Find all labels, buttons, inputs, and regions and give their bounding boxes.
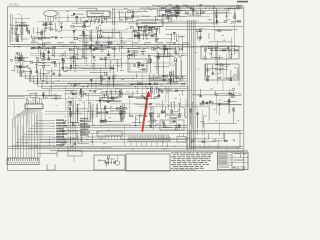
ground loop under J1 [47, 165, 55, 171]
centre-low cluster [63, 100, 93, 126]
wire bus B [8, 46, 243, 48]
connector J2 pin circles [129, 135, 170, 140]
wire bus L [60, 133, 243, 135]
cluster left of U1 [66, 11, 85, 24]
parts on stacked rails [68, 75, 125, 87]
cluster right of relay [148, 53, 185, 85]
wire y18.5 left [14, 18, 30, 20]
wire bus K [57, 149, 248, 151]
verticals x213-217 [214, 8, 217, 25]
input filter cluster top-left [11, 23, 28, 32]
wires in right-low box [192, 133, 235, 143]
sparse centre parts [126, 48, 146, 58]
rail y16 top right [155, 15, 210, 17]
parts in auxiliary box [98, 156, 116, 167]
resistor R2 [21, 28, 23, 33]
right border mid cluster [192, 88, 242, 98]
J2 ticks to rail [131, 142, 167, 147]
wires above U5 [8, 94, 37, 99]
IF amplifier row [62, 44, 123, 60]
cluster right mid top [166, 33, 185, 44]
parts in U3 box [204, 47, 239, 60]
parts in B2 [163, 121, 181, 131]
small connector right of J2 [177, 133, 186, 142]
wire bus A [10, 43, 190, 45]
auxiliary circuit box bottom middle [94, 155, 125, 170]
oscillator cluster [31, 43, 61, 61]
wire y95 left [8, 94, 62, 96]
cluster right-centre [161, 101, 186, 119]
top-right rail 1 [152, 5, 243, 7]
wire bus C2 [30, 53, 187, 55]
dense centre cluster [95, 100, 127, 124]
wires left column [13, 20, 30, 42]
notes text block [171, 152, 213, 170]
right-low box outline [190, 131, 240, 148]
sheet number smear top-right [237, 1, 248, 3]
U5 pin stubs up [27, 97, 42, 104]
right border low cluster [190, 99, 242, 128]
J1 pin number marks [9, 162, 37, 163]
transistor Q20 in auxiliary box [115, 155, 119, 165]
DIN socket oval near antenna [44, 11, 58, 17]
mid-right cluster [151, 44, 182, 61]
wire bundle from U5 to edge connector J1 [13, 109, 43, 158]
audio output cluster [61, 53, 124, 76]
wire bus F [62, 124, 187, 126]
rail right mid1 [165, 26, 243, 28]
wire bus C [30, 48, 150, 50]
ladder taps to right [13, 119, 67, 145]
second label ladder column [80, 118, 90, 136]
IF stage cluster [70, 26, 92, 43]
connector J2 strip [128, 137, 170, 142]
cluster near right border top [209, 7, 241, 24]
box G3 [97, 131, 122, 136]
IC U2 (box) [137, 20, 163, 26]
U2 label [141, 22, 157, 23]
detector cluster [96, 25, 123, 44]
background wiring mesh [10, 9, 242, 149]
G3 pin ticks [99, 136, 121, 139]
top-right rail 3 [158, 10, 230, 12]
audio driver cluster [30, 61, 61, 85]
wires right of J1 [37, 150, 70, 157]
U1 pin stubs [89, 17, 107, 25]
wire from U1 to top rail [78, 8, 97, 11]
vertical bus band right [188, 20, 196, 150]
edge connector J1 box [7, 158, 39, 165]
parts below tuner cluster [156, 11, 179, 22]
top-right rail 2 [152, 7, 243, 9]
wires near right border upper-mid [197, 28, 233, 42]
dense cluster at arrow target [128, 87, 160, 100]
U2 pin stubs [139, 26, 160, 33]
op-amp U1 (IC box top middle) [87, 11, 110, 17]
relay K1 box [128, 59, 147, 72]
cluster below U2 [126, 25, 159, 42]
left input lower cluster [14, 34, 32, 43]
junction dots on wire buses [14, 5, 239, 149]
cluster above centre [85, 88, 123, 99]
cluster around arrow shaft [130, 104, 160, 130]
resistor R1 [15, 28, 17, 33]
junction box below bundle [68, 151, 82, 163]
mixer cluster [33, 27, 62, 41]
rail right mid2 [165, 29, 238, 31]
box G2 [63, 131, 77, 139]
audio left cluster [11, 63, 30, 77]
tuner cluster top right [165, 4, 206, 17]
wire bus J [57, 151, 243, 153]
box B2 right-centre [160, 120, 184, 130]
cluster under U1 [82, 19, 112, 26]
parts below relay row [130, 72, 185, 86]
vertical bundle x68-76 [68, 100, 76, 151]
wire bus H [8, 145, 243, 147]
cluster above U2 [128, 6, 165, 19]
cluster left of fan [42, 89, 62, 99]
svg-text:SM 5512: SM 5512 [9, 4, 20, 7]
AGC cluster left [10, 52, 28, 62]
cluster right of arrow [160, 88, 185, 98]
left border wire pair [10, 14, 13, 42]
J1 comb teeth [8, 158, 37, 161]
vertical pair right of U1 [113, 8, 115, 25]
parts in U4 box [206, 64, 238, 81]
IC U3 box right [201, 46, 239, 59]
wire bus M [40, 139, 186, 141]
U1 label [90, 13, 104, 14]
cluster between U1 and U2 [118, 8, 135, 23]
wire bus y130 [62, 130, 243, 132]
DIN socket pins [46, 16, 56, 21]
wire bus G [62, 127, 187, 129]
red annotation arrow [142, 91, 151, 132]
IC U5 box left-centre [25, 104, 43, 109]
left parts band y62-72 [14, 60, 38, 72]
cluster above J2 left [61, 130, 94, 145]
label row above bus A [32, 42, 189, 43]
wire bus N [40, 141, 186, 143]
wires y111-114 centre-left [45, 112, 125, 115]
wire bus I [8, 148, 243, 150]
IC U4 box right [205, 64, 239, 80]
schematic sheet border frame [8, 7, 244, 171]
stacked wire rails y76-89 with left elbows [21, 71, 187, 89]
title block table [218, 152, 249, 170]
ticks from top border [162, 7, 238, 10]
cluster above U5 right [64, 88, 86, 99]
svg-text:4822 726: 4822 726 [233, 166, 246, 170]
relay contacts [130, 62, 146, 71]
wire bus C3 [30, 55, 187, 57]
capacitor C1 [28, 30, 29, 34]
empty legend box [126, 154, 170, 171]
antenna matching cluster [42, 21, 63, 32]
tiny revision text top-right [236, 5, 242, 8]
